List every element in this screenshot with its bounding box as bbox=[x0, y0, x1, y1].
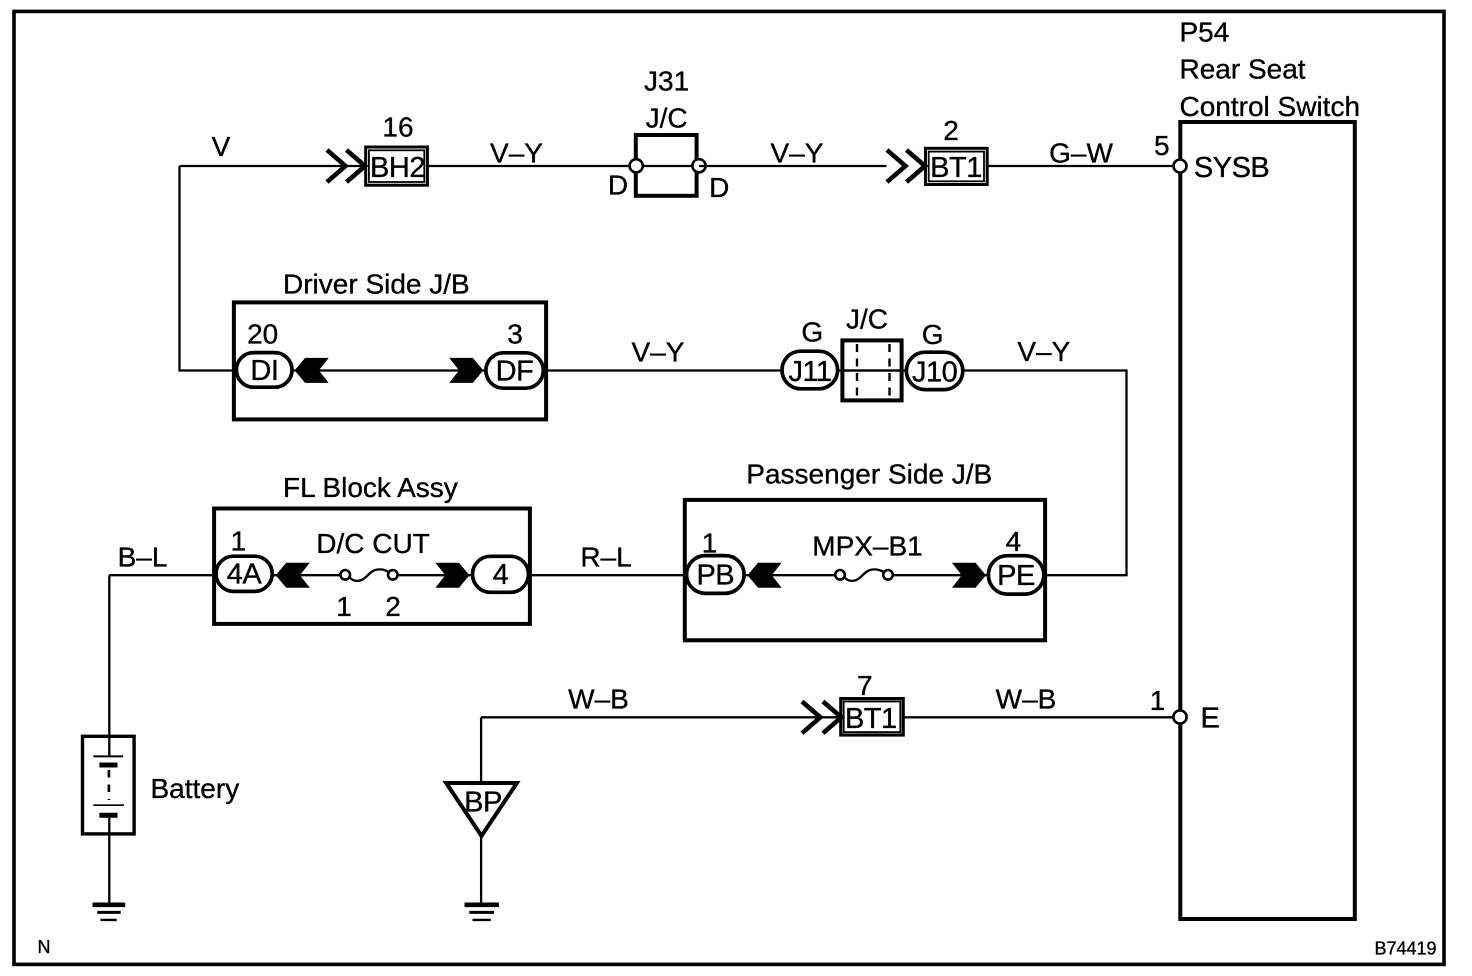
svg-text:Passenger Side J/B: Passenger Side J/B bbox=[746, 458, 992, 489]
svg-text:B–L: B–L bbox=[118, 542, 168, 573]
svg-text:J11: J11 bbox=[788, 356, 831, 388]
svg-text:4A: 4A bbox=[227, 559, 263, 591]
svg-text:R–L: R–L bbox=[580, 542, 631, 573]
svg-text:V–Y: V–Y bbox=[771, 138, 824, 169]
svg-text:4: 4 bbox=[493, 559, 509, 591]
svg-text:20: 20 bbox=[247, 319, 278, 350]
svg-text:V–Y: V–Y bbox=[1017, 336, 1070, 367]
svg-text:J10: J10 bbox=[912, 357, 957, 389]
svg-text:P54: P54 bbox=[1180, 16, 1230, 47]
svg-text:J31: J31 bbox=[644, 65, 689, 96]
svg-text:W–B: W–B bbox=[996, 683, 1057, 714]
svg-text:Battery: Battery bbox=[151, 773, 240, 804]
svg-text:Driver Side J/B: Driver Side J/B bbox=[283, 268, 470, 299]
svg-text:G: G bbox=[801, 317, 823, 348]
svg-text:D: D bbox=[608, 170, 628, 201]
svg-text:BH2: BH2 bbox=[370, 152, 425, 184]
svg-text:1: 1 bbox=[1150, 685, 1166, 716]
svg-text:G–W: G–W bbox=[1049, 138, 1113, 169]
svg-text:V–Y: V–Y bbox=[490, 138, 543, 169]
svg-text:V: V bbox=[212, 131, 231, 162]
svg-text:16: 16 bbox=[382, 111, 413, 142]
svg-text:PE: PE bbox=[997, 560, 1035, 592]
svg-text:BT1: BT1 bbox=[845, 703, 897, 735]
svg-text:V–Y: V–Y bbox=[632, 337, 685, 368]
svg-text:J/C: J/C bbox=[846, 303, 888, 334]
svg-text:7: 7 bbox=[857, 670, 873, 701]
svg-text:B74419: B74419 bbox=[1374, 938, 1436, 958]
svg-text:BT1: BT1 bbox=[930, 152, 982, 184]
svg-text:FL Block Assy: FL Block Assy bbox=[283, 472, 458, 503]
svg-text:2: 2 bbox=[943, 115, 959, 146]
svg-text:D: D bbox=[709, 172, 729, 203]
svg-text:Control Switch: Control Switch bbox=[1180, 91, 1361, 122]
svg-text:W–B: W–B bbox=[568, 683, 629, 714]
svg-text:SYSB: SYSB bbox=[1194, 152, 1269, 184]
svg-text:E: E bbox=[1201, 702, 1220, 734]
svg-text:3: 3 bbox=[507, 319, 523, 350]
svg-text:PB: PB bbox=[696, 560, 734, 592]
svg-text:2: 2 bbox=[385, 591, 401, 622]
svg-text:BP: BP bbox=[464, 787, 502, 819]
svg-text:N: N bbox=[38, 937, 51, 957]
svg-text:DI: DI bbox=[250, 355, 278, 387]
svg-text:G: G bbox=[922, 319, 944, 350]
svg-text:5: 5 bbox=[1154, 130, 1170, 161]
svg-text:1: 1 bbox=[231, 526, 247, 557]
svg-text:MPX–B1: MPX–B1 bbox=[812, 531, 923, 562]
svg-text:DF: DF bbox=[496, 356, 534, 388]
svg-text:D/C CUT: D/C CUT bbox=[316, 528, 430, 559]
svg-text:Rear Seat: Rear Seat bbox=[1180, 54, 1306, 85]
svg-text:J/C: J/C bbox=[646, 102, 688, 133]
svg-text:4: 4 bbox=[1006, 526, 1022, 557]
svg-text:1: 1 bbox=[336, 591, 352, 622]
